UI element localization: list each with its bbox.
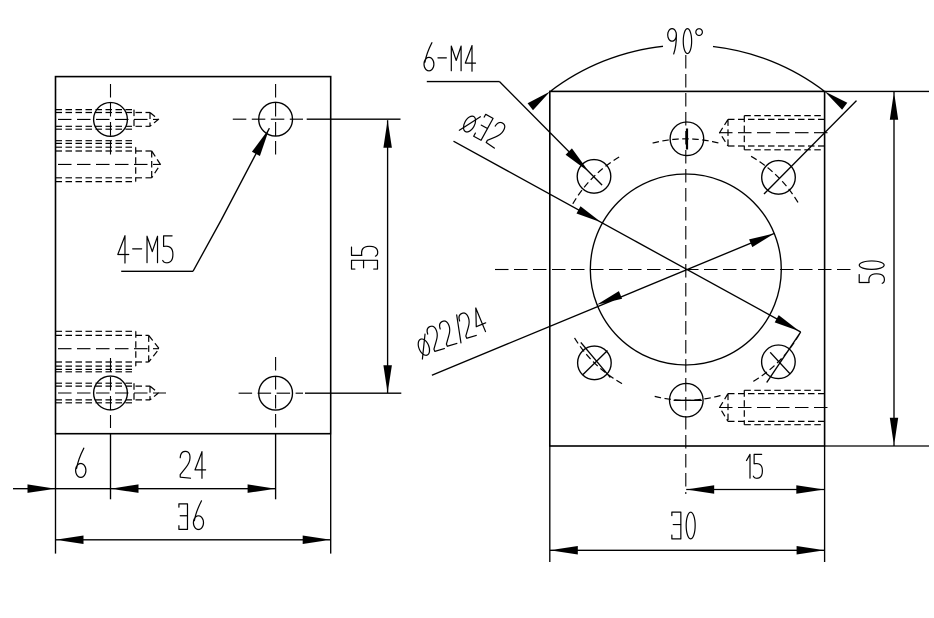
hidden line pair between lower plugs xyxy=(56,368,135,370)
hole M4 top (front view) xyxy=(670,122,704,156)
threaded hole upper-1 centerline xyxy=(58,118,158,120)
top edge extension (for 50 dim) xyxy=(825,90,929,92)
threaded hole lower-1 centerline xyxy=(58,348,159,350)
threaded hole right-upper centerline xyxy=(719,132,833,134)
extension line right edge xyxy=(330,434,332,554)
centerline bottom-left hole vertical xyxy=(110,358,112,428)
dimension 36 line xyxy=(56,539,331,541)
extension line right-view right edge xyxy=(824,446,826,562)
diameter line Ø32 leader xyxy=(454,141,801,332)
threaded hole right-lower centerline xyxy=(719,407,833,409)
leader 4-M5 xyxy=(121,270,193,272)
dimension 24 text xyxy=(180,451,205,478)
threaded hole right-upper (hidden lines) xyxy=(744,115,824,117)
hole M4 lower-right (front view) xyxy=(762,345,796,379)
hole M5 bottom-left (left view) xyxy=(94,376,128,410)
threaded hole side view lower-1 (hidden lines) xyxy=(56,330,136,332)
extension line bottom-right hole xyxy=(275,434,277,500)
dimension 30 text xyxy=(672,512,695,539)
dimension 35 text xyxy=(352,246,378,269)
centerline top-right hole horizontal xyxy=(233,118,303,120)
label 4-M5 xyxy=(118,236,173,263)
dimension 6-24 line xyxy=(13,488,276,490)
extension line left edge xyxy=(55,434,57,554)
dimension 6 text xyxy=(76,448,86,477)
dimension 50 text xyxy=(859,261,884,283)
dimension 15 line xyxy=(686,489,824,491)
centerline top-right hole vertical xyxy=(275,84,277,156)
hole M4 bottom (front view) xyxy=(670,383,704,417)
bolt-circle arc at upper-left hole xyxy=(573,156,622,204)
lower-right hole cross stroke xyxy=(770,352,790,373)
dimension 35 line xyxy=(387,120,389,393)
threaded hole lower-2 centerline xyxy=(58,392,166,394)
bolt-circle arc at upper-right hole xyxy=(751,156,799,205)
label Ø22/24 xyxy=(412,306,489,359)
bottom edge extension (for 50 dim) xyxy=(825,445,929,447)
bolt-circle arc at bottom hole xyxy=(652,396,721,401)
threaded hole right-lower (hidden lines) xyxy=(744,389,824,391)
main vertical centerline xyxy=(685,55,687,494)
main horizontal centerline xyxy=(495,269,856,271)
left view plate outline xyxy=(56,77,331,434)
label 6-M4 xyxy=(424,43,476,71)
bore circle Ø32 xyxy=(590,174,781,365)
upper-right hole diagonal centerline xyxy=(764,101,857,194)
dimension 15 text xyxy=(746,454,762,478)
dimension 50 line xyxy=(893,91,895,446)
hole M5 bottom-right (left view) xyxy=(259,376,293,410)
diameter line Ø22/24 xyxy=(432,233,775,375)
threaded hole side view upper-1 (hidden lines) xyxy=(56,109,135,111)
label Ø32 xyxy=(459,107,506,150)
angular dimension 90° arc xyxy=(550,46,663,91)
bottom hole horizontal tick xyxy=(674,399,702,401)
right view plate outline xyxy=(550,91,825,446)
hole M5 top-left (left view) xyxy=(94,103,128,137)
hole M4 lower-left (front view) xyxy=(578,346,612,380)
centerline top-left hole vertical xyxy=(110,84,112,158)
lower-left hole diagonal strokes xyxy=(581,342,611,377)
threaded hole upper-2 centerline xyxy=(58,163,160,165)
threaded hole side view upper-2 (hidden lines) xyxy=(56,146,136,148)
extension line right-view left edge xyxy=(549,446,551,562)
centerline bottom-right hole horizontal xyxy=(239,392,303,394)
bolt-circle arc at lower-left hole xyxy=(573,336,622,384)
threaded hole side view lower-2 (hidden lines) xyxy=(56,382,135,384)
top hole vertical tick xyxy=(686,129,688,150)
dimension 36 text xyxy=(179,501,204,530)
leader 6-M4 xyxy=(427,81,500,83)
centerline bottom-right hole vertical xyxy=(275,357,277,429)
extension line bottom-left hole xyxy=(110,434,112,500)
dimension 90° text xyxy=(668,29,703,54)
hole M4 upper-right (front view) xyxy=(762,161,796,195)
dimension 30 line xyxy=(550,549,825,551)
bolt-circle arc at lower-right hole xyxy=(751,334,799,383)
hole M5 top-right (left view) xyxy=(259,102,293,136)
hole M4 upper-left (front view) xyxy=(577,160,611,194)
hidden line pair between upper plugs xyxy=(56,140,135,142)
bolt-circle arc at top hole xyxy=(653,139,722,144)
